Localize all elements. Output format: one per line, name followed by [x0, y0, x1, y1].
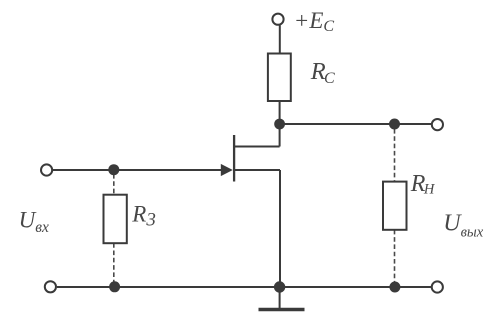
node: junction above Rh [389, 119, 400, 130]
node: gate junction [108, 164, 119, 175]
ground [259, 287, 305, 310]
svg-text:Uвх: Uвх [19, 207, 49, 235]
node: drain junction [274, 119, 285, 130]
svg-text:RC: RC [310, 58, 335, 87]
svg-text:R3: R3 [131, 202, 156, 231]
terminal: input bottom [45, 281, 56, 292]
dashed lead: gate node to Rz top [113, 174, 115, 195]
svg-text:RH: RH [410, 171, 436, 198]
transistor VT1 (JFET, n-channel) [221, 128, 280, 287]
wire: drain node to output top terminal [280, 123, 431, 125]
terminal: input top [41, 164, 52, 175]
terminal: output top [432, 119, 443, 130]
resistor Rh (load) [383, 182, 407, 230]
svg-text:Uвых: Uвых [443, 210, 483, 240]
dashed lead: Rh bottom to bottom rail [394, 230, 396, 284]
terminal +Ec (supply) [272, 14, 283, 25]
resistor Rc [268, 54, 291, 102]
wire: input terminal to gate [53, 169, 222, 171]
dashed lead: Rz bottom to bottom rail [113, 243, 115, 284]
wire: Rc bottom to drain node [279, 101, 281, 120]
node: bottom rail at source/ground [274, 281, 285, 292]
svg-text:+EC: +EC [294, 8, 335, 35]
resistor Rz (gate resistor) [104, 195, 127, 244]
node: bottom rail below Rz [109, 281, 120, 292]
dashed lead: output node to Rh top [394, 129, 396, 182]
node: bottom rail below Rh [389, 282, 400, 293]
wire: bottom rail [57, 286, 431, 288]
terminal: output bottom [432, 281, 443, 292]
wire: +Ec terminal to Rc top [279, 25, 281, 53]
